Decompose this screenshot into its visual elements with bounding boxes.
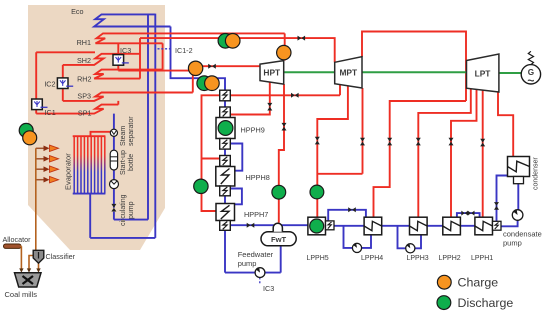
wire feedwater pump loop to FwT: [225, 246, 281, 273]
svg-text:LPPH5: LPPH5: [307, 255, 329, 262]
valve on LPPH3 feed: [416, 138, 421, 146]
label IC1-2: [175, 46, 193, 55]
classifier: [33, 250, 44, 263]
valve on HPT inlet: [208, 64, 216, 69]
svg-text:circulating: circulating: [120, 194, 127, 226]
heat exchanger box below HPPH9: [220, 139, 231, 150]
svg-text:SP1: SP1: [78, 109, 92, 118]
label LPPH2: [439, 255, 461, 262]
label Allocator: [3, 235, 32, 244]
svg-text:MPT: MPT: [339, 68, 358, 78]
charge-discharge pair on feedwater line: [197, 76, 219, 91]
label Coal mills: [5, 290, 38, 299]
svg-text:pump: pump: [238, 259, 257, 268]
circulating pump symbol: [110, 180, 119, 189]
svg-text:Classifier: Classifier: [46, 252, 76, 261]
label IC3: [120, 46, 131, 55]
label LPPH5: [307, 255, 329, 262]
svg-text:Eco: Eco: [71, 7, 83, 16]
svg-text:SP3: SP3: [77, 92, 91, 101]
wire LPPH2-LPPH1 bypass: [457, 213, 480, 226]
valve on LPPH5 feed: [315, 137, 320, 145]
start-up bottle symbol: [110, 150, 117, 170]
wire main extraction header y95: [202, 85, 341, 212]
svg-text:IC2: IC2: [44, 79, 55, 88]
svg-text:HPPH8: HPPH8: [246, 173, 270, 182]
valve on LPPH4 bypass: [348, 207, 356, 212]
svg-text:pump: pump: [128, 201, 135, 219]
svg-text:IC1: IC1: [45, 108, 56, 117]
label LPPH3: [407, 255, 429, 262]
svg-text:LPT: LPT: [475, 68, 492, 78]
wire feedwater from HPPH column to Eco (blue): [171, 27, 226, 91]
wire RH2 coil: [94, 70, 162, 79]
svg-text:Discharge: Discharge: [458, 296, 514, 310]
svg-text:condensate: condensate: [503, 229, 542, 238]
svg-text:LPPH3: LPPH3: [407, 255, 429, 262]
svg-text:Allocator: Allocator: [3, 235, 32, 244]
label Start-up bottle: [120, 150, 135, 175]
heat exchanger box HPPH9 inlet: [220, 107, 231, 118]
wire allocator to coal mill: [20, 246, 21, 269]
valve on LPPH2 feed: [449, 138, 454, 146]
svg-text:condenser: condenser: [533, 157, 540, 190]
HPPH9 storage box with discharge circle: [216, 118, 235, 139]
wire HPPH8 drain to HPPH7: [230, 189, 242, 205]
wire HPT exhaust drain left: [230, 82, 269, 115]
wire coal feed main (brown): [35, 148, 37, 250]
wire condenser drain left branch: [497, 176, 508, 227]
wire IC3 dotted reference below feedwater pump: [259, 277, 261, 284]
wire IC1 vertical SH2-SP1: [36, 52, 95, 113]
wire IC1-2 dotted reference: [158, 48, 172, 50]
wire LPT extraction to LPPH2: [451, 89, 477, 217]
wire SP3 coil with long line to HPT inlet: [63, 93, 193, 101]
label RH2: [77, 75, 91, 84]
turbine MPT: [335, 57, 362, 88]
wire SP1 coil: [36, 101, 118, 114]
injection cooler IC3: [113, 55, 129, 66]
svg-text:LPPH1: LPPH1: [471, 255, 493, 262]
svg-text:SH2: SH2: [77, 56, 91, 65]
label circulating pump: [120, 194, 135, 226]
svg-text:Steam: Steam: [120, 126, 127, 146]
wire green shaft LPT-generator: [499, 72, 522, 74]
condenser: [508, 157, 530, 184]
label HPPH9: [241, 125, 265, 134]
legend discharge symbol: [437, 296, 451, 310]
label condensate pump: [503, 229, 542, 247]
LPPH4 drain pump: [352, 243, 361, 252]
label IC2: [44, 79, 55, 88]
wire separator / start-up bottle / circulating pump line: [113, 114, 115, 208]
discharge circle on LPPH5 feed: [310, 185, 324, 199]
label LPPH1: [471, 255, 493, 262]
steam separator symbol: [110, 129, 117, 136]
label LPPH4: [361, 255, 383, 262]
svg-text:IC1-2: IC1-2: [175, 46, 193, 55]
LPPH1 side heat exchanger box: [493, 221, 502, 230]
boiler furnace background: [28, 5, 165, 250]
valve on condenser drain branch: [494, 202, 499, 210]
label HPPH7: [244, 210, 268, 219]
svg-text:Charge: Charge: [458, 276, 499, 290]
evaporator tube bank: [74, 136, 105, 193]
svg-text:HPT: HPT: [263, 68, 281, 78]
wire condensate line LPPH5 to LPPH1: [334, 225, 475, 227]
discharge circle on FwT steam line: [272, 185, 286, 199]
legend Charge text: [458, 276, 499, 290]
valve on LPPH4 feed: [387, 138, 392, 146]
valve on FwT condensate line: [247, 223, 255, 228]
wire green shaft HPT-MPT: [284, 71, 335, 73]
svg-text:~: ~: [527, 74, 534, 88]
wire main condensate line HPPH7 to LPPH5: [230, 224, 308, 226]
valve on HPT drain: [267, 103, 272, 111]
svg-text:LPPH2: LPPH2: [439, 255, 461, 262]
evaporator bottom header: [73, 193, 106, 195]
valve on circulating line: [111, 204, 116, 212]
label SP3: [77, 92, 91, 101]
wire LPPH4 bypass: [328, 210, 366, 226]
heater LPPH4: [364, 217, 382, 235]
svg-text:IC3: IC3: [263, 284, 274, 293]
wire classifier left return: [29, 256, 33, 270]
wire LPT extraction to LPPH1: [482, 90, 484, 217]
heat exchanger box above HPPH9 (Eco link): [220, 90, 231, 101]
label SH2: [77, 56, 91, 65]
label Feedwater pump: [238, 250, 274, 268]
turbine LPT: [467, 54, 499, 92]
heat exchanger box below HPPH8: [220, 186, 231, 196]
legend Discharge text: [458, 296, 514, 310]
wire HPPH9 drain to HPPH8: [230, 144, 242, 171]
discharge circle on HPPH7 feed: [194, 179, 208, 193]
svg-text:HPPH7: HPPH7: [244, 210, 268, 219]
label Eco: [71, 7, 83, 16]
evaporator top header: [73, 135, 106, 137]
feedwater pump: [255, 268, 265, 278]
wire IC3 vertical RH1 drop and HPT inlet link: [118, 43, 259, 92]
svg-text:IC3: IC3: [120, 46, 131, 55]
svg-text:bottle: bottle: [128, 154, 135, 171]
wire blue riser Eco-top to evaporator bottom: [90, 14, 155, 238]
valve on main extraction header: [291, 93, 299, 98]
wire evaporator outlet to separator (red): [91, 132, 111, 136]
arrow into mill from allocator: [19, 268, 23, 272]
wire green shaft MPT-LPT: [362, 71, 467, 73]
wire classifier to coal mill: [38, 263, 40, 270]
label Classifier: [46, 252, 76, 261]
valve pair on LPPH1 bypass: [461, 211, 474, 216]
heater LPPH5 with discharge circle: [308, 217, 326, 235]
wire SH2 riser to MPT line: [140, 38, 335, 79]
burner 3: [36, 166, 59, 173]
generator G: [521, 51, 540, 87]
burner 1: [36, 145, 59, 151]
valve on LPPH1 feed: [480, 139, 485, 147]
heat exchanger box below HPPH7: [220, 221, 231, 231]
valve on SH2-MPT line: [298, 36, 306, 41]
label SP1: [78, 109, 92, 118]
wire RH1 coil with long line to HPT top (red): [96, 33, 285, 43]
charge-discharge pair on main steam: [218, 34, 240, 49]
wire condenser hotwell to condensate pump: [501, 184, 518, 227]
label HPPH8: [246, 173, 270, 182]
svg-text:LPPH4: LPPH4: [361, 255, 383, 262]
svg-text:FwT: FwT: [271, 235, 287, 244]
valve on MPT corner drain: [360, 138, 365, 146]
valve on FwT steam line: [282, 123, 287, 131]
label RH1: [77, 38, 91, 47]
feedwater tank FwT: [261, 223, 296, 245]
burner 2: [36, 156, 59, 162]
legend charge symbol: [437, 275, 451, 289]
svg-text:Start-up: Start-up: [120, 150, 127, 175]
wire LPPH3 drain pump loop: [398, 226, 422, 249]
label IC3 reference: [263, 284, 274, 293]
label Steam separator: [120, 116, 135, 146]
charge-discharge pair at boiler: [19, 123, 37, 144]
wire SH2 coil: [63, 54, 140, 65]
svg-text:separator: separator: [128, 116, 135, 146]
injection cooler IC1: [32, 99, 48, 110]
turbine HPT: [260, 61, 284, 85]
wire LPT exhaust to condenser: [498, 92, 513, 156]
burner 4: [36, 176, 59, 183]
wire IC2 vertical SH2-SP3: [62, 65, 64, 101]
wire LPT extraction to LPPH3: [418, 89, 471, 218]
heater LPPH1: [475, 217, 493, 235]
svg-text:RH2: RH2: [77, 75, 91, 84]
wire MPT crossover to LPT and LPPH4 feed: [362, 32, 466, 218]
allocator: [4, 244, 22, 248]
charge circle on HPT inlet: [188, 61, 202, 75]
wire feedwater riser through HPPH column: [224, 90, 226, 272]
svg-text:Feedwater: Feedwater: [238, 250, 274, 259]
svg-text:HPPH9: HPPH9: [241, 125, 265, 134]
svg-text:pump: pump: [503, 239, 522, 248]
charge circle above HPT: [277, 45, 291, 59]
svg-text:Coal mills: Coal mills: [5, 290, 38, 299]
LPPH5 side heat exchanger box: [326, 221, 335, 230]
coal mill: [15, 273, 42, 287]
wire MPT drain to LPPH5 and FwT branch: [317, 86, 362, 217]
heater LPPH3: [410, 217, 428, 235]
wire LPPH4 drain pump loop: [344, 226, 372, 248]
heat exchanger HPPH7: [216, 204, 235, 221]
wire HPT corner drop to FwT dome: [279, 84, 284, 223]
heat exchanger HPPH8: [216, 167, 235, 187]
heater LPPH2: [443, 217, 461, 235]
injection cooler IC2: [57, 78, 73, 89]
arrow into mill from classifier: [36, 268, 40, 272]
wire Eco coil (blue) with riser to evaporator loop: [94, 14, 170, 26]
svg-text:RH1: RH1: [77, 38, 91, 47]
heat exchanger box above HPPH8: [220, 156, 231, 167]
wire RH1-RH2 link: [162, 43, 164, 69]
svg-text:Evaporator: Evaporator: [64, 153, 73, 190]
LPPH3 drain pump: [406, 244, 415, 253]
wire RH1 to HPT drop: [284, 33, 286, 60]
condensate pump: [512, 210, 523, 221]
label condenser: [533, 157, 540, 190]
arrow into mill from classifier left: [27, 268, 31, 272]
wire blue riser circulating loop: [114, 14, 148, 220]
label Evaporator: [64, 153, 73, 190]
label IC1: [45, 108, 56, 117]
